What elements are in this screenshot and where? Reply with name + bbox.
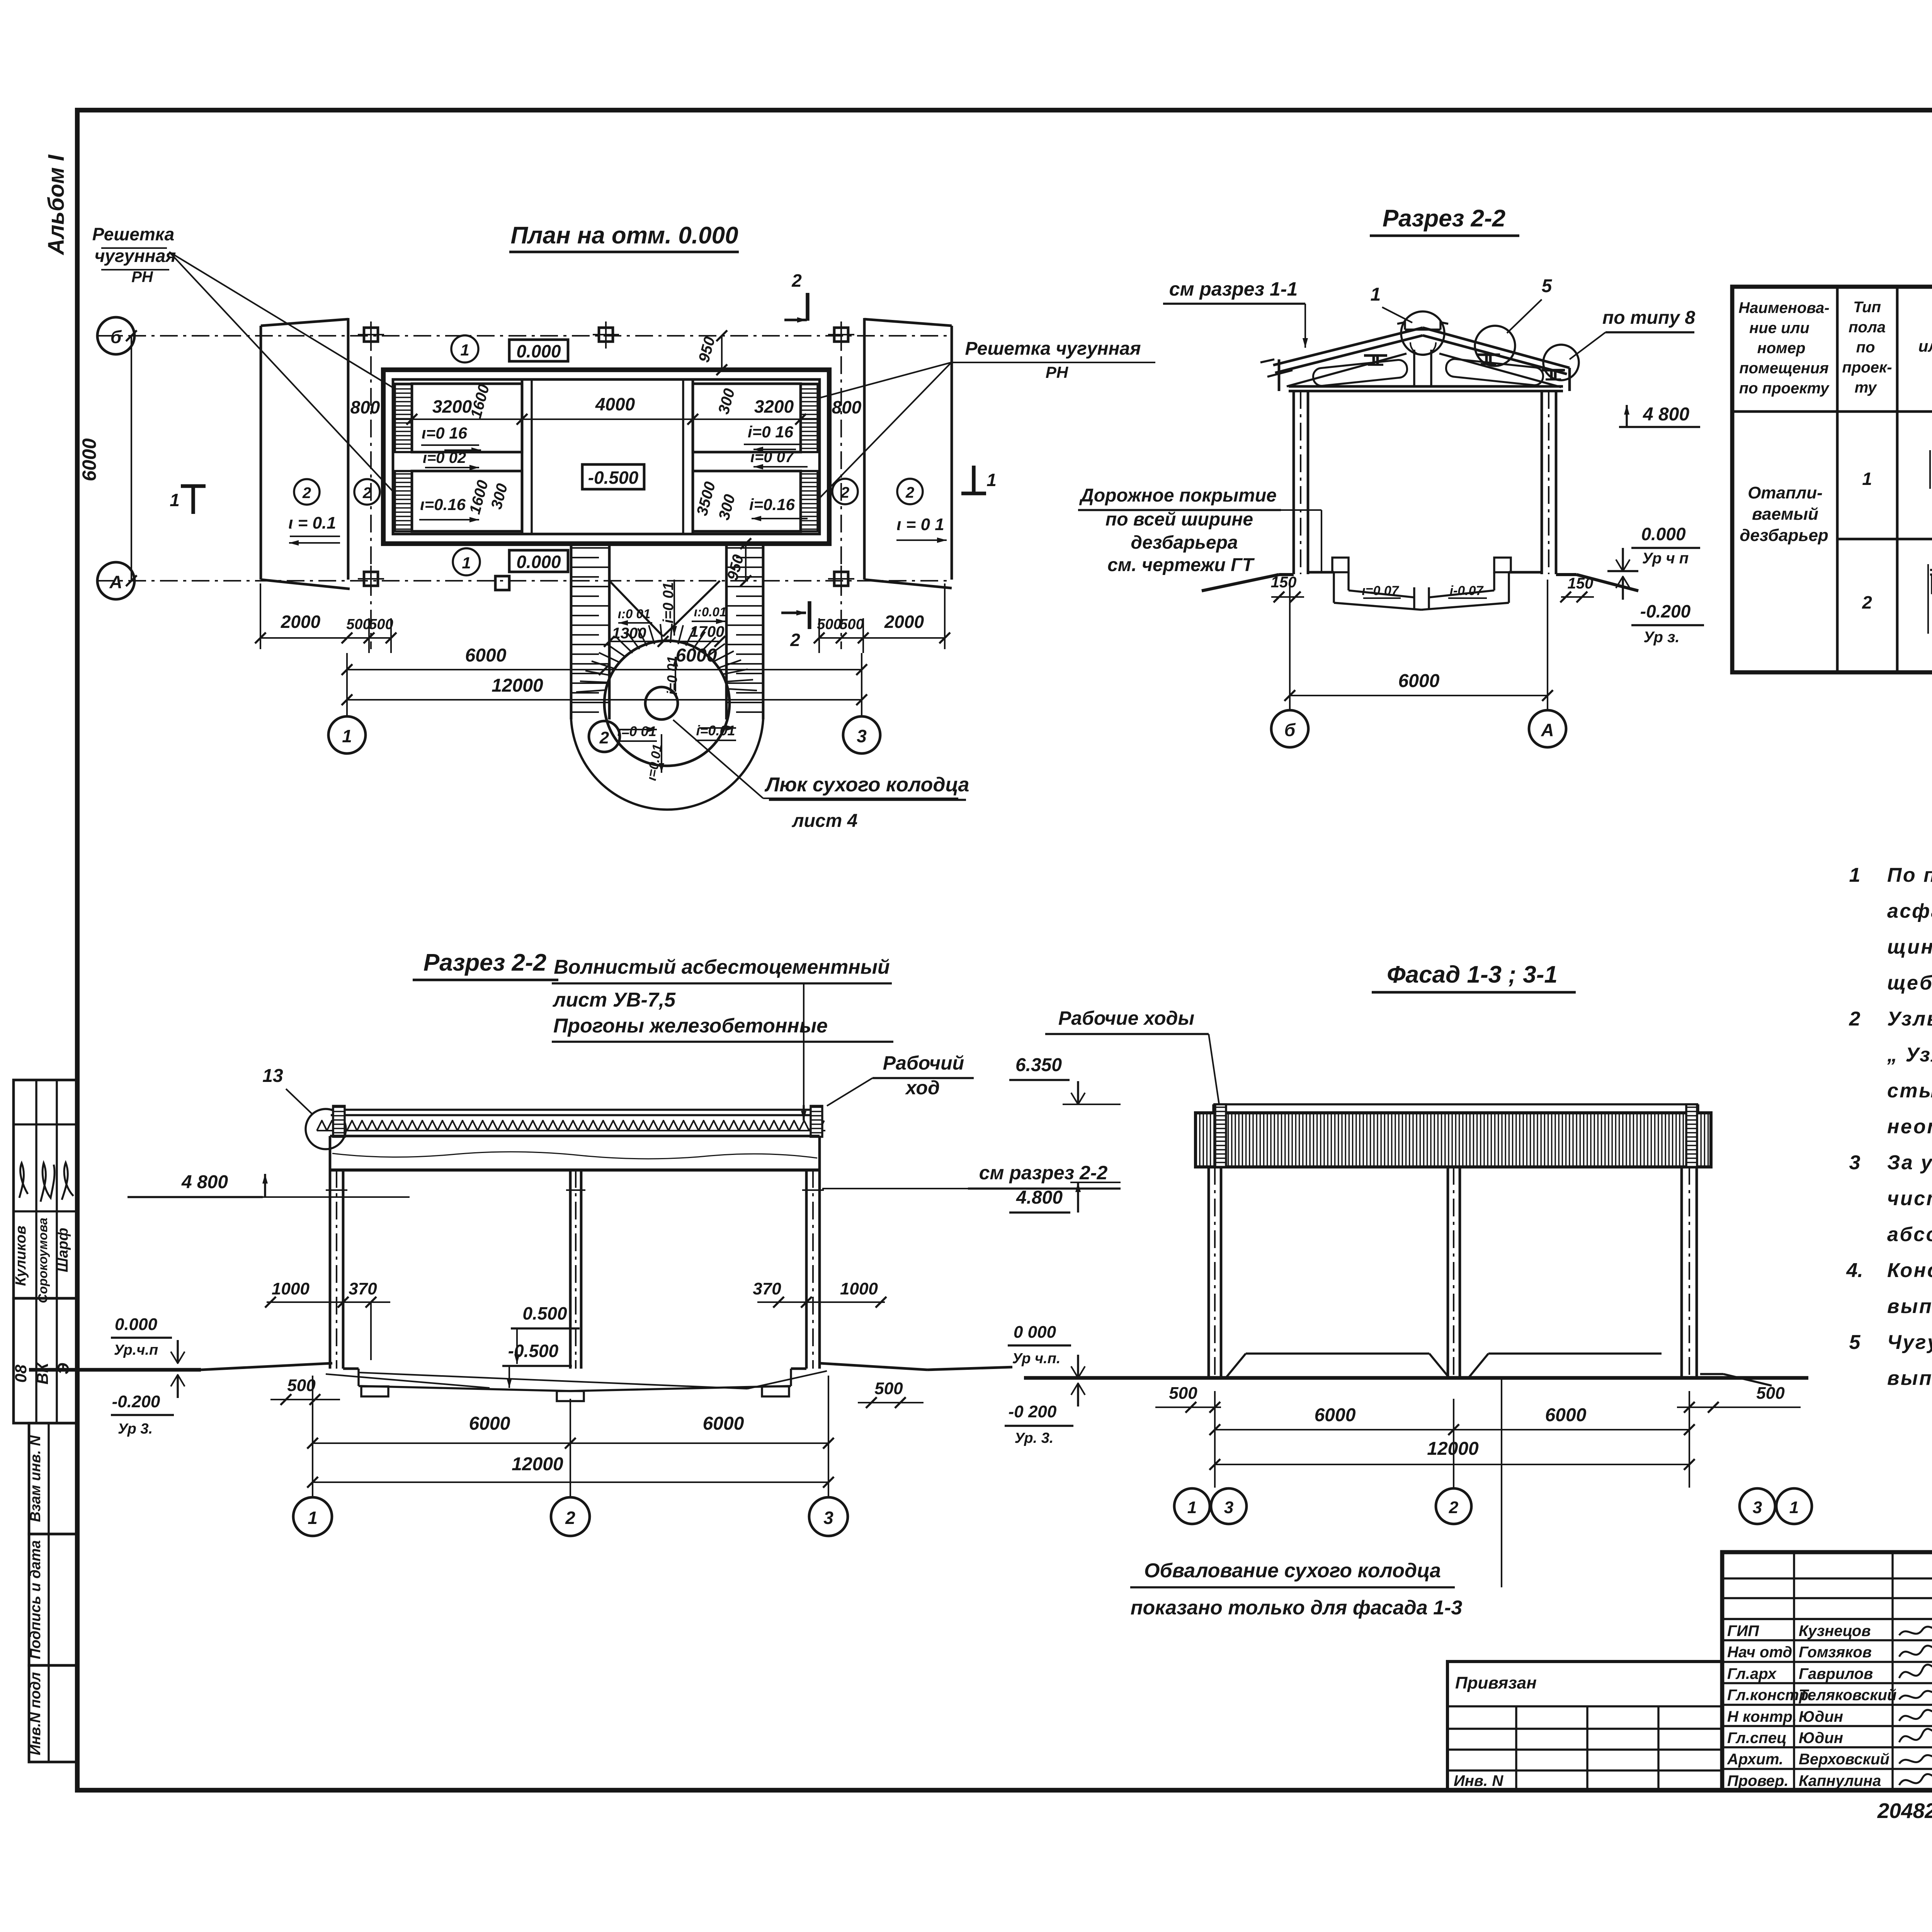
svg-text:5: 5 (1542, 276, 1553, 296)
facade roof walkway strip (1213, 1104, 1698, 1113)
svg-text:Решетка чугунная: Решетка чугунная (965, 338, 1141, 359)
plan grid bubbles 1 2 3 (328, 716, 880, 753)
svg-text:2: 2 (302, 485, 311, 502)
svg-text:1: 1 (1187, 1498, 1197, 1517)
svg-text:Волнистый асбестоцементный: Волнистый асбестоцементный (554, 956, 890, 978)
bottom section elevation -0.200 (111, 1375, 185, 1437)
plan slope labels lower (419, 495, 808, 522)
plan column marks top row (358, 321, 854, 349)
facade rabochie hody label (1045, 1007, 1220, 1112)
svg-text:асфальтовую отмостку шириной: асфальтовую отмостку шириной 700мм, тол- (1887, 900, 1932, 922)
svg-text:Обвалование сухого колодца: Обвалование сухого колодца (1144, 1560, 1441, 1582)
svg-text:Разрез 2-2: Разрез 2-2 (1383, 205, 1505, 232)
plan column axis 1 dash-dot (370, 325, 372, 649)
svg-text:проек-: проек- (1842, 359, 1892, 376)
plan right ramp wing (864, 318, 952, 588)
svg-text:или номер узла: или номер узла (1918, 337, 1932, 355)
svg-text:Альбом I: Альбом I (44, 154, 69, 256)
svg-text:ι = 0 1: ι = 0 1 (896, 515, 944, 534)
plan column axis 3 dash-dot (840, 325, 842, 649)
facade dims 6000 6000 (1209, 1405, 1695, 1435)
bottom section dim 500 right (858, 1379, 923, 1408)
top section detail circle at ridge (1401, 311, 1444, 355)
plan ramp left wall strip (571, 544, 609, 719)
svg-text:1: 1 (1862, 469, 1872, 489)
bottom section sm razrez 2-2 label (822, 1162, 1121, 1189)
svg-text:Привязан: Привязан (1455, 1673, 1537, 1692)
plan bottom dims 2000 500 500 left (255, 583, 396, 653)
left stamp: podpis i data box (27, 1534, 77, 1665)
top section right column (1542, 391, 1556, 574)
svg-text:i=0.01: i=0.01 (696, 723, 735, 738)
svg-text:2: 2 (599, 728, 609, 747)
bottom section dims 6000 6000 12000 (307, 1376, 834, 1498)
svg-text:2000: 2000 (884, 612, 924, 632)
svg-text:800: 800 (832, 397, 862, 417)
facade dim 500 left (1155, 1384, 1221, 1413)
svg-text:ту: ту (1855, 379, 1878, 396)
svg-text:0.000: 0.000 (1641, 524, 1686, 544)
facade middle column (1448, 1167, 1460, 1378)
svg-text:0.000: 0.000 (516, 552, 561, 572)
svg-text:дезбарьера: дезбарьера (1131, 532, 1238, 553)
svg-text:2: 2 (791, 270, 802, 291)
plan dim 6000 left bay (342, 645, 610, 675)
svg-text:выполнить по серии 2 460 -: выполнить по серии 2 460 - 1 вып. 1. (1887, 1295, 1932, 1318)
top section ridge joint detail (1397, 321, 1448, 355)
svg-text:по: по (1856, 339, 1875, 356)
bottom section dim 370 1000 right (753, 1279, 886, 1308)
svg-text:по проекту: по проекту (1739, 380, 1830, 397)
facade ground line (1024, 1376, 1808, 1380)
svg-text:500: 500 (817, 616, 841, 633)
facade note obvalovanie (1130, 1379, 1502, 1619)
plan section cut 1 left (170, 486, 206, 514)
plan building inner wall (393, 379, 820, 534)
bottom section left column (326, 1170, 347, 1369)
svg-text:Верховский: Верховский (1799, 1751, 1889, 1768)
plan pit level -0.500 box (582, 464, 644, 489)
svg-text:вып. VI альбом 2 8шт - 48,: вып. VI альбом 2 8шт - 48, 8 кг. (1887, 1367, 1932, 1389)
plan ramp inner circle platform (604, 641, 730, 766)
svg-text:по всей ширине: по всей ширине (1105, 509, 1253, 530)
svg-text:800: 800 (350, 397, 380, 417)
bottom section floor and pit (326, 1369, 827, 1401)
plan grid line A (97, 562, 952, 599)
top section purlin T profiles (1364, 355, 1565, 379)
top section elevation 4800 (1619, 404, 1700, 427)
svg-text:500: 500 (839, 616, 864, 633)
svg-text:по типу 8: по типу 8 (1602, 308, 1695, 328)
svg-text:370: 370 (753, 1279, 781, 1298)
svg-text:Тип: Тип (1853, 299, 1881, 316)
explication header texts (1738, 299, 1932, 397)
explication floor schema type 2 (1928, 564, 1932, 634)
plan building outer wall (383, 370, 829, 544)
plan column marks bottom row (358, 566, 854, 593)
explication room name (1740, 483, 1828, 545)
svg-text:500: 500 (1756, 1384, 1785, 1403)
bottom section grid bubbles 1 2 3 (293, 1497, 848, 1536)
svg-text:2: 2 (840, 484, 849, 501)
plan dim 12000 (342, 653, 867, 716)
title block signature grid (1722, 1552, 1932, 1790)
svg-text:Рабочий: Рабочий (883, 1052, 964, 1074)
svg-text:150: 150 (1271, 574, 1297, 591)
svg-text:см. чертежи ГТ: см. чертежи ГТ (1107, 555, 1255, 575)
svg-text:3: 3 (857, 726, 867, 746)
svg-text:ι=0 07: ι=0 07 (1362, 583, 1400, 598)
plan bottom dims 500 500 2000 right (814, 583, 950, 653)
svg-text:Ур. 3.: Ур. 3. (1015, 1430, 1054, 1446)
svg-text:ι=0 02: ι=0 02 (423, 449, 466, 466)
bottom section elevation 4800 (128, 1172, 410, 1197)
svg-text:см разрез 1-1: см разрез 1-1 (1169, 278, 1298, 300)
svg-text:1000: 1000 (272, 1279, 310, 1298)
svg-text:помещения: помещения (1739, 360, 1829, 377)
svg-text:ι:0 01: ι:0 01 (618, 607, 650, 621)
svg-text:5: 5 (1849, 1331, 1861, 1354)
svg-text:i=0 01: i=0 01 (660, 582, 677, 624)
svg-text:Гаврилов: Гаврилов (1799, 1665, 1873, 1682)
svg-text:13: 13 (262, 1066, 283, 1086)
plan dry well manhole (645, 687, 678, 719)
svg-text:4.800: 4.800 (1016, 1187, 1063, 1208)
facade grid bubbles (1174, 1488, 1812, 1524)
svg-text:500: 500 (346, 616, 371, 633)
svg-text:6000: 6000 (78, 438, 100, 481)
svg-text:500: 500 (874, 1379, 903, 1398)
svg-text:3: 3 (1753, 1498, 1762, 1517)
svg-text:пола: пола (1849, 319, 1886, 336)
svg-text:Прогоны железобетонные: Прогоны железобетонные (553, 1015, 828, 1037)
bottom section rabochiy hod label (827, 1052, 974, 1106)
svg-text:Дорожное покрытие: Дорожное покрытие (1079, 485, 1277, 506)
svg-text:Инв. N: Инв. N (1454, 1772, 1503, 1789)
svg-text:стых листов по железобетонн: стых листов по железобетонным прогонам (1887, 1080, 1932, 1102)
svg-text:1: 1 (170, 490, 180, 510)
svg-text:6000: 6000 (703, 1413, 744, 1434)
plan level mark 0.000 top (451, 335, 568, 362)
svg-text:Ур ч п: Ур ч п (1642, 550, 1689, 567)
svg-text:ВК: ВК (33, 1362, 51, 1384)
svg-text:показано только для фасада: показано только для фасада 1-3 (1131, 1597, 1463, 1619)
svg-text:4 800: 4 800 (181, 1172, 228, 1192)
svg-text:1700: 1700 (690, 623, 724, 640)
top section elevation -0.200 (1616, 577, 1704, 646)
plan chamber rect top-right (693, 384, 801, 452)
bottom section middle column (566, 1170, 585, 1369)
bottom margin texts (1877, 1799, 1932, 1824)
top section road label (1078, 485, 1321, 575)
svg-text:абсолютной отметке: абсолютной отметке (1887, 1223, 1932, 1246)
svg-text:-0.200: -0.200 (1640, 601, 1691, 621)
svg-text:Подпись и дата: Подпись и дата (27, 1540, 44, 1659)
svg-text:370: 370 (349, 1279, 377, 1298)
svg-text:1: 1 (460, 341, 469, 359)
title block roles and names (1727, 1622, 1896, 1789)
bottom section dim 500 left (270, 1376, 340, 1405)
svg-text:Рабочие ходы: Рабочие ходы (1058, 1007, 1194, 1029)
top section outside ground (1202, 574, 1638, 602)
svg-text:2: 2 (1849, 1008, 1861, 1030)
svg-text:ι=0 16: ι=0 16 (422, 424, 468, 442)
svg-text:ГИП: ГИП (1727, 1622, 1759, 1639)
svg-text:Ур з.: Ур з. (1643, 629, 1679, 646)
bottom section eave ladder left (333, 1106, 345, 1137)
top section roof truss (1260, 328, 1570, 391)
svg-text:Теляковский: Теляковский (1799, 1687, 1896, 1704)
explication table frame (1732, 287, 1932, 672)
svg-text:500: 500 (1169, 1384, 1197, 1403)
svg-text:4 800: 4 800 (1643, 404, 1689, 425)
explication type numbers (1862, 469, 1872, 612)
bottom section elevation 0.000 (111, 1315, 185, 1363)
svg-text:ι=0 07: ι=0 07 (750, 449, 794, 466)
facade dim 12000 (1209, 1391, 1695, 1488)
svg-text:Отапли-: Отапли- (1748, 483, 1823, 502)
svg-text:i-0.07: i-0.07 (1450, 583, 1484, 598)
svg-text:Провер.: Провер. (1727, 1772, 1789, 1789)
svg-text:щебеночной подготовке толщин: щебеночной подготовке толщиной 80 мм (1887, 972, 1932, 994)
plan dry well leader and label (673, 720, 969, 831)
svg-text:2: 2 (905, 484, 914, 501)
svg-text:неотапливаемых сельскохозяйст: неотапливаемых сельскохозяйственных здан… (1887, 1116, 1932, 1138)
bottom section roof sheet label (552, 956, 893, 1042)
svg-text:За условную отметку 0.000: За условную отметку 0.000 принята отметк… (1887, 1151, 1932, 1174)
facade elevation 6.350 (1009, 1055, 1121, 1104)
svg-text:Гл.арх: Гл.арх (1727, 1665, 1777, 1682)
top section label sm razrez 1-1 (1163, 278, 1308, 348)
left stamp: inv N podl box (27, 1665, 77, 1762)
svg-text:Юдин: Юдин (1799, 1708, 1843, 1725)
svg-text:i=0 16: i=0 16 (748, 423, 794, 441)
svg-text:Наименова-: Наименова- (1738, 299, 1829, 316)
svg-text:1: 1 (1789, 1498, 1799, 1517)
facade elevation 0.000 (1008, 1323, 1085, 1378)
facade berm 2 (1469, 1354, 1772, 1386)
svg-text:А: А (109, 572, 122, 592)
svg-text:Конструкцию и узлы креплени: Конструкцию и узлы крепления рабочих ход… (1887, 1259, 1932, 1282)
svg-text:0 000: 0 000 (1014, 1323, 1056, 1342)
plan ramp outer semicircle (571, 719, 763, 810)
plan internal partition left (522, 379, 532, 534)
svg-text:б: б (111, 327, 122, 347)
svg-text:08: 08 (12, 1364, 30, 1383)
bottom section pit levels (502, 1303, 580, 1388)
plan section cut 2 bottom (781, 601, 810, 650)
bottom section ground lines (29, 1363, 1012, 1370)
svg-text:-0.200: -0.200 (112, 1392, 160, 1411)
svg-text:б: б (1284, 720, 1296, 740)
svg-text:0.000: 0.000 (516, 341, 561, 361)
svg-text:Сорокоумова: Сорокоумова (36, 1218, 50, 1303)
title block privyazan table (1447, 1662, 1722, 1790)
svg-text:Ур ч.п.: Ур ч.п. (1012, 1350, 1060, 1367)
svg-text:6000: 6000 (1545, 1405, 1587, 1425)
svg-text:РН: РН (131, 269, 153, 286)
svg-text:6000: 6000 (465, 645, 507, 666)
bottom section right column (802, 1170, 824, 1369)
plan ramp radial hatch (576, 624, 757, 692)
svg-text:-0 200: -0 200 (1009, 1402, 1057, 1421)
top section detail circle 5 (1475, 326, 1515, 366)
svg-text:i=0 01: i=0 01 (664, 656, 680, 695)
svg-text:2: 2 (565, 1508, 575, 1528)
bottom section purlin band (330, 1136, 820, 1170)
svg-text:1: 1 (1849, 864, 1861, 886)
plan inner dims lower (466, 478, 739, 522)
svg-text:Решетка: Решетка (92, 224, 175, 244)
facade title (1372, 961, 1576, 992)
plan grille top-right (801, 384, 818, 452)
plan grille bottom-right (801, 471, 818, 531)
svg-text:Кузнецов: Кузнецов (1799, 1622, 1871, 1639)
plan chamber rect bottom-left (412, 471, 522, 531)
explication floor schema type 1 (1930, 450, 1932, 489)
svg-text:ι = 0.1: ι = 0.1 (288, 514, 336, 532)
title block outer (1722, 1552, 1932, 1790)
svg-text:20482-01: 20482-01 (1877, 1799, 1932, 1823)
plan vertical dim 6000 between axes (78, 330, 137, 586)
svg-text:1: 1 (308, 1508, 318, 1528)
plan chamber rect top-left (412, 384, 522, 452)
svg-text:3200: 3200 (432, 396, 472, 417)
svg-text:0.000: 0.000 (115, 1315, 158, 1334)
top section title (1370, 205, 1519, 236)
left stamp: vzam inv box (27, 1423, 77, 1534)
svg-text:Гомзяков: Гомзяков (1799, 1644, 1872, 1661)
plan section cut 1 right (961, 466, 997, 493)
top section grid bubbles B A (1271, 710, 1566, 747)
svg-text:Н контр.: Н контр. (1727, 1708, 1797, 1725)
plan title (509, 222, 739, 252)
plan dim 6000 right bay (604, 645, 867, 675)
svg-text:Люк сухого колодца: Люк сухого колодца (764, 774, 969, 796)
title block signatures (1899, 1622, 1932, 1785)
bottom section detail 13 label (262, 1066, 346, 1149)
plan chamber divider lines right (693, 452, 820, 471)
plan 950 dim top (696, 330, 727, 375)
top section dim 6000 (1284, 580, 1553, 711)
plan grille top-left (395, 384, 412, 452)
svg-text:1: 1 (1371, 284, 1381, 305)
top section label po tipu 8 (1570, 308, 1695, 359)
svg-text:i=0.16: i=0.16 (749, 495, 795, 514)
svg-text:-0.500: -0.500 (588, 468, 639, 488)
svg-text:Ур.ч.п: Ур.ч.п (114, 1342, 158, 1358)
svg-text:3: 3 (1849, 1151, 1861, 1174)
facade berm 1 (1226, 1354, 1449, 1378)
svg-text:Инв.N подл: Инв.N подл (27, 1672, 44, 1755)
svg-text:Нач отд: Нач отд (1727, 1644, 1792, 1661)
plan left ramp wing (261, 318, 350, 589)
svg-text:А: А (1541, 720, 1554, 740)
facade elevation 4.800 (1009, 1182, 1121, 1213)
svg-text:3200: 3200 (754, 396, 794, 417)
plan internal partition right (683, 379, 693, 534)
svg-text:ι=0.16: ι=0.16 (420, 495, 466, 514)
svg-text:ход: ход (905, 1077, 940, 1099)
svg-text:РН: РН (1046, 363, 1069, 381)
svg-text:2000: 2000 (281, 612, 321, 632)
svg-text:Чугунная решетка РН принята: Чугунная решетка РН принята по т п 902-9… (1887, 1331, 1932, 1354)
svg-text:2: 2 (1862, 592, 1872, 612)
bottom section dim 1000 370 left (265, 1279, 390, 1369)
svg-text:2: 2 (362, 485, 371, 502)
facade roof corrugated band (1196, 1113, 1711, 1167)
svg-text:лист УВ-7,5: лист УВ-7,5 (552, 989, 676, 1011)
plan chamber divider lines left (393, 452, 522, 471)
svg-text:Архит.: Архит. (1727, 1751, 1783, 1768)
svg-text:3: 3 (823, 1508, 833, 1528)
svg-text:2: 2 (1449, 1498, 1459, 1517)
svg-text:чистого пола здания , что с: чистого пола здания , что соответствует (1887, 1187, 1932, 1210)
svg-text:1: 1 (462, 554, 471, 572)
svg-text:500: 500 (369, 616, 393, 633)
facade left column (1209, 1167, 1221, 1378)
svg-text:План на отм. 0.000: План на отм. 0.000 (510, 222, 738, 249)
bottom section corrugated roof (317, 1110, 825, 1131)
svg-text:щиной 20 мм, с уклоном ι =: щиной 20 мм, с уклоном ι = 0,01 от здани… (1887, 936, 1932, 958)
svg-text:ваемый: ваемый (1752, 505, 1818, 524)
top section leader 5 (1507, 276, 1553, 333)
svg-text:По продольным сторонам наве: По продольным сторонам навеса выполнить (1887, 864, 1932, 886)
facade dim 500 right (1677, 1384, 1801, 1413)
plan wing zone labels (288, 479, 947, 546)
svg-text:4000: 4000 (595, 394, 635, 414)
left stamp: name table (13, 1080, 77, 1303)
svg-text:1000: 1000 (840, 1279, 878, 1298)
plan section cut 2 top (784, 270, 808, 323)
svg-text:3: 3 (1224, 1498, 1233, 1517)
svg-text:лист 4: лист 4 (792, 811, 858, 831)
plan grid line B (97, 317, 952, 354)
plan slope labels upper (421, 423, 808, 470)
svg-text:6000: 6000 (1315, 1405, 1356, 1425)
svg-text:6.350: 6.350 (1015, 1055, 1062, 1075)
svg-text:1300: 1300 (612, 625, 646, 642)
svg-text:Гл.спец: Гл.спец (1727, 1730, 1787, 1747)
svg-text:0.500: 0.500 (522, 1303, 567, 1323)
bottom section eave ladder right (811, 1106, 822, 1137)
svg-text:1: 1 (342, 726, 352, 746)
svg-text:ние или: ние или (1749, 320, 1810, 337)
svg-text:номер: номер (1757, 340, 1806, 357)
svg-text:см разрез 2-2: см разрез 2-2 (979, 1162, 1108, 1184)
svg-text:6000: 6000 (469, 1413, 510, 1434)
plan label reshetka left (92, 224, 394, 493)
top section leader 1 (1371, 284, 1412, 323)
svg-text:Фасад 1-3 ; 3-1: Фасад 1-3 ; 3-1 (1387, 961, 1558, 988)
top section left column (1294, 391, 1308, 574)
plan ramp V drainage lines (609, 580, 720, 636)
svg-text:2: 2 (790, 630, 800, 650)
svg-text:Капнулина: Капнулина (1799, 1772, 1881, 1789)
facade right column (1682, 1167, 1697, 1378)
notes list (1846, 864, 1932, 1389)
svg-text:-0.500: -0.500 (508, 1341, 559, 1361)
plan level mark 0.000 bottom (453, 548, 568, 575)
plan chamber rect bottom-right (693, 471, 801, 531)
svg-text:12000: 12000 (512, 1454, 563, 1475)
plan 950 dim bottom (724, 538, 751, 586)
bottom section title (413, 949, 558, 980)
svg-text:дезбарьер: дезбарьер (1740, 526, 1828, 545)
plan dim row 3200 4000 3200 (350, 383, 862, 425)
svg-text:Взам инв. N: Взам инв. N (27, 1435, 44, 1522)
plan ramp slope labels (604, 605, 736, 782)
